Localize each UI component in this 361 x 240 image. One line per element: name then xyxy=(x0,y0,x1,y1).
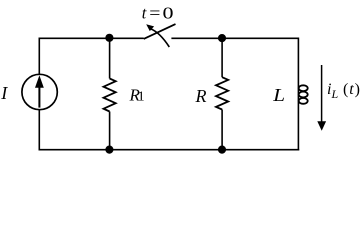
inductor L loop 3 xyxy=(299,98,308,104)
svg-text:R: R xyxy=(195,86,207,106)
wire top left segment xyxy=(39,37,144,39)
wire bottom xyxy=(39,149,300,151)
svg-text:t: t xyxy=(142,3,147,22)
wire top right segment xyxy=(171,37,298,39)
node junction dot top R1 xyxy=(105,34,113,42)
wire left vertical lower xyxy=(38,110,40,151)
svg-text:=: = xyxy=(149,4,160,22)
node junction dot bottom R xyxy=(218,146,226,154)
wire R1 branch bottom lead xyxy=(109,112,111,150)
svg-text:1: 1 xyxy=(138,89,145,104)
wire R branch top lead xyxy=(221,38,223,77)
node junction dot top R xyxy=(218,34,226,42)
svg-text:L: L xyxy=(272,86,285,106)
current source arrow shaft xyxy=(38,86,40,108)
switch motion arc xyxy=(151,29,170,47)
wire left vertical upper xyxy=(38,38,40,75)
current source arrowhead xyxy=(35,75,44,88)
resistor R1 zigzag xyxy=(104,79,116,112)
wire R branch bottom lead xyxy=(221,110,223,150)
switch blade xyxy=(144,24,176,39)
iL(t) current arrow shaft xyxy=(321,65,323,123)
switch arc arrowhead xyxy=(146,24,154,31)
iL(t) current arrowhead xyxy=(317,121,326,131)
node junction dot bottom R1 xyxy=(105,146,113,154)
wire R1 branch top lead xyxy=(109,38,111,78)
wire right vertical xyxy=(297,38,299,151)
inductor L loop 2 xyxy=(299,92,308,98)
svg-text:0: 0 xyxy=(163,3,174,22)
inductor L loop 1 xyxy=(299,85,308,91)
svg-text:I: I xyxy=(0,83,8,103)
current source I circle xyxy=(22,74,57,109)
resistor R zigzag xyxy=(216,77,228,109)
svg-text:iL (t): iL (t) xyxy=(327,81,360,101)
